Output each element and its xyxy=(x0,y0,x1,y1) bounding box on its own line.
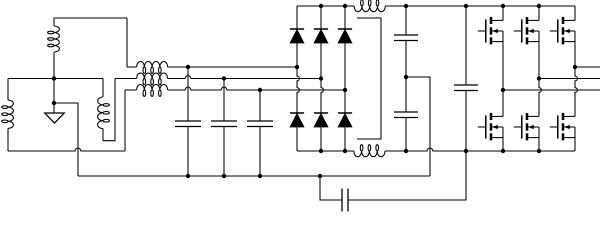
node phase C to leg3 xyxy=(343,88,347,92)
inductor machine winding L1 (vertical) xyxy=(48,18,60,79)
node phase tap for Cb xyxy=(222,76,226,80)
inductor dc choke L+ xyxy=(354,0,385,12)
wire negative dc rail (inverter side, hop over neutral riser) xyxy=(385,148,575,151)
wire negative dc rail (rectifier side) xyxy=(297,150,354,152)
wire rectifier leg 3 xyxy=(344,6,346,151)
node output W xyxy=(573,65,577,69)
wire neutral rail xyxy=(78,175,430,177)
capacitor C2 (lower dc-link half) xyxy=(394,77,418,151)
wire positive dc rail (rectifier side) xyxy=(297,5,354,7)
node series caps top xyxy=(404,4,408,8)
mosfet Q3 (top leg3) xyxy=(550,17,575,44)
wire leg1 drain drop xyxy=(502,6,504,21)
wire phase A to rectifier xyxy=(168,66,297,68)
inductor machine winding L2 (left edge) xyxy=(2,79,14,152)
inductor machine winding L3 xyxy=(98,79,110,141)
node bottom rail leg3 xyxy=(343,149,347,153)
node phase tap for Ca xyxy=(186,65,190,69)
wire leg2 midpoint vertical (hop over output U) xyxy=(539,31,541,117)
wire choke core link xyxy=(357,18,381,139)
wire winding L3 bottom hook to phase B xyxy=(103,79,115,141)
capacitor filter Cb xyxy=(211,79,237,177)
node top rail leg2 xyxy=(319,4,323,8)
wire leg1 source to negative rail xyxy=(502,127,504,151)
diode D3 (upper) xyxy=(338,29,352,43)
node phase B to leg2 xyxy=(319,76,323,80)
node top rail leg2 drain xyxy=(537,4,541,8)
wire phase A riser xyxy=(126,18,128,67)
wire machine box top edge xyxy=(8,78,103,80)
wire phase B lead xyxy=(115,78,137,80)
capacitor filter Cc xyxy=(247,90,273,176)
capacitor dc-link C3 xyxy=(454,6,478,151)
arrow reference (open triangle pointing down) xyxy=(45,113,64,123)
wire phase C lead xyxy=(125,89,137,91)
wire positive dc rail (inverter side) xyxy=(385,5,575,7)
inductor filter Lb xyxy=(137,73,168,85)
wire leg1 midpoint vertical xyxy=(502,31,504,117)
mosfet Q6 (bottom leg3) xyxy=(550,113,575,140)
mosfet Q1 (top leg1) xyxy=(478,17,503,44)
capacitor C1 (upper dc-link half) xyxy=(394,6,418,77)
wire leg2 source to negative rail xyxy=(538,127,540,151)
wire neutral riser to midpoint xyxy=(406,77,430,176)
inductor dc choke L- xyxy=(354,145,385,157)
node neutral to EMI capacitor branch xyxy=(318,174,322,178)
wire rectifier leg 1 xyxy=(297,6,299,151)
node neutral rail junction Cc xyxy=(258,174,262,178)
diode D2 (upper) xyxy=(314,29,328,43)
mosfet Q2 (top leg2) xyxy=(514,17,539,44)
wire leg3 drain drop (rail corner) xyxy=(574,6,576,21)
wire leg3 midpoint vertical (hops over outputs V,U) xyxy=(575,31,577,117)
node output U xyxy=(501,88,505,92)
capacitor EMI Cy xyxy=(342,189,348,212)
node top rail leg3 xyxy=(343,4,347,8)
wire EMI branch to negative rail xyxy=(348,151,466,200)
inductor filter Lc xyxy=(137,85,168,97)
inductor filter La xyxy=(137,62,168,74)
mosfet Q5 (bottom leg2) xyxy=(514,113,539,140)
diode D5 (lower) xyxy=(314,113,328,127)
diode D1 (upper) xyxy=(290,29,304,43)
mosfet Q4 (bottom leg1) xyxy=(478,113,503,140)
wire output U xyxy=(503,89,600,91)
node machine frame junction xyxy=(52,76,56,80)
node phase A to leg1 xyxy=(295,65,299,69)
diode D6 (lower) xyxy=(338,113,352,127)
wire phase C to rectifier (hops over Ca,Cb drops) xyxy=(168,87,345,90)
node neutral rail junction Ca xyxy=(186,174,190,178)
node neutral rail junction Cb xyxy=(222,174,226,178)
node bottom rail leg2 xyxy=(319,149,323,153)
node bottom rail leg1 xyxy=(501,149,505,153)
wire output V xyxy=(539,78,600,80)
capacitor filter Ca xyxy=(175,67,201,176)
wire leg2 drain drop xyxy=(538,6,540,21)
wire leg3 source to negative rail (rail corner) xyxy=(574,127,576,151)
node machine neutral junction xyxy=(52,101,56,105)
wire phase B to rectifier (hop over Ca drop) xyxy=(168,76,321,79)
node series caps midpoint xyxy=(404,75,408,79)
wire machine center conductor xyxy=(53,79,55,114)
node output V xyxy=(537,76,541,80)
wire neutral branch from machine to bottom rail xyxy=(54,103,78,176)
node top rail leg1 drain xyxy=(501,4,505,8)
wire EMI branch down from neutral rail xyxy=(320,176,342,200)
node EMI to negative rail xyxy=(464,149,468,153)
node bottom rail leg2 xyxy=(537,149,541,153)
wire phase C riser from box xyxy=(124,90,126,151)
node series caps bottom xyxy=(404,149,408,153)
wire rectifier leg 2 xyxy=(321,6,323,151)
wire output W xyxy=(575,66,600,68)
wire phase A lead xyxy=(127,66,137,68)
node phase tap for Cc xyxy=(258,88,262,92)
wire top feed from machine to phase A xyxy=(54,17,127,19)
wire machine box bottom edge (hop over neutral drop) xyxy=(8,148,125,151)
node dc-link cap top xyxy=(464,4,468,8)
diode D4 (lower) xyxy=(290,113,304,127)
